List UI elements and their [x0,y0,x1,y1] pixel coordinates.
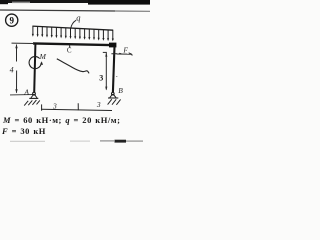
comb ticks with arrowheads [32,26,114,41]
bottom faint next-row marks [10,141,45,142]
svg-text:M: M [39,52,47,61]
svg-text:4: 4 [10,66,14,75]
given data text line 2 [2,126,82,136]
bottom dimension line [41,103,112,110]
support A: pin triangle [29,92,38,98]
inner dimension 3 (right) [103,52,108,90]
svg-text:9: 9 [9,15,14,25]
distributed load comb top line [32,26,113,30]
stray speck [116,76,117,77]
thin rule under band [0,10,115,11]
svg-text:C: C [67,46,72,54]
support B: pin triangle [108,92,118,98]
right column [113,46,115,92]
right corner thick elbow [109,43,116,48]
bottom extension line at support level [10,94,33,96]
force F tick on column [111,53,117,55]
left column [34,44,35,92]
wavy diagonal stroke [57,59,89,74]
given data text line 1 [3,115,148,125]
circled 9 [6,14,18,26]
dimension 4: vertical line with arrows [15,44,17,93]
support B hatching [108,99,121,105]
svg-text:F: F [122,46,128,55]
force F arrow [117,53,133,56]
svg-text:3: 3 [99,74,103,83]
moment M arc with arrowhead [29,57,41,69]
beam (top chord) [33,43,116,45]
svg-text:3: 3 [96,100,101,109]
q leader curve [71,20,76,28]
svg-text:3: 3 [52,101,57,110]
C tick under beam [69,45,71,47]
left thin extension of beam level [12,42,35,44]
svg-text:A: A [23,88,29,97]
svg-text:q: q [76,12,81,22]
top scan border band [0,0,150,3]
support A hatching [24,100,40,106]
svg-text:B: B [118,86,123,95]
